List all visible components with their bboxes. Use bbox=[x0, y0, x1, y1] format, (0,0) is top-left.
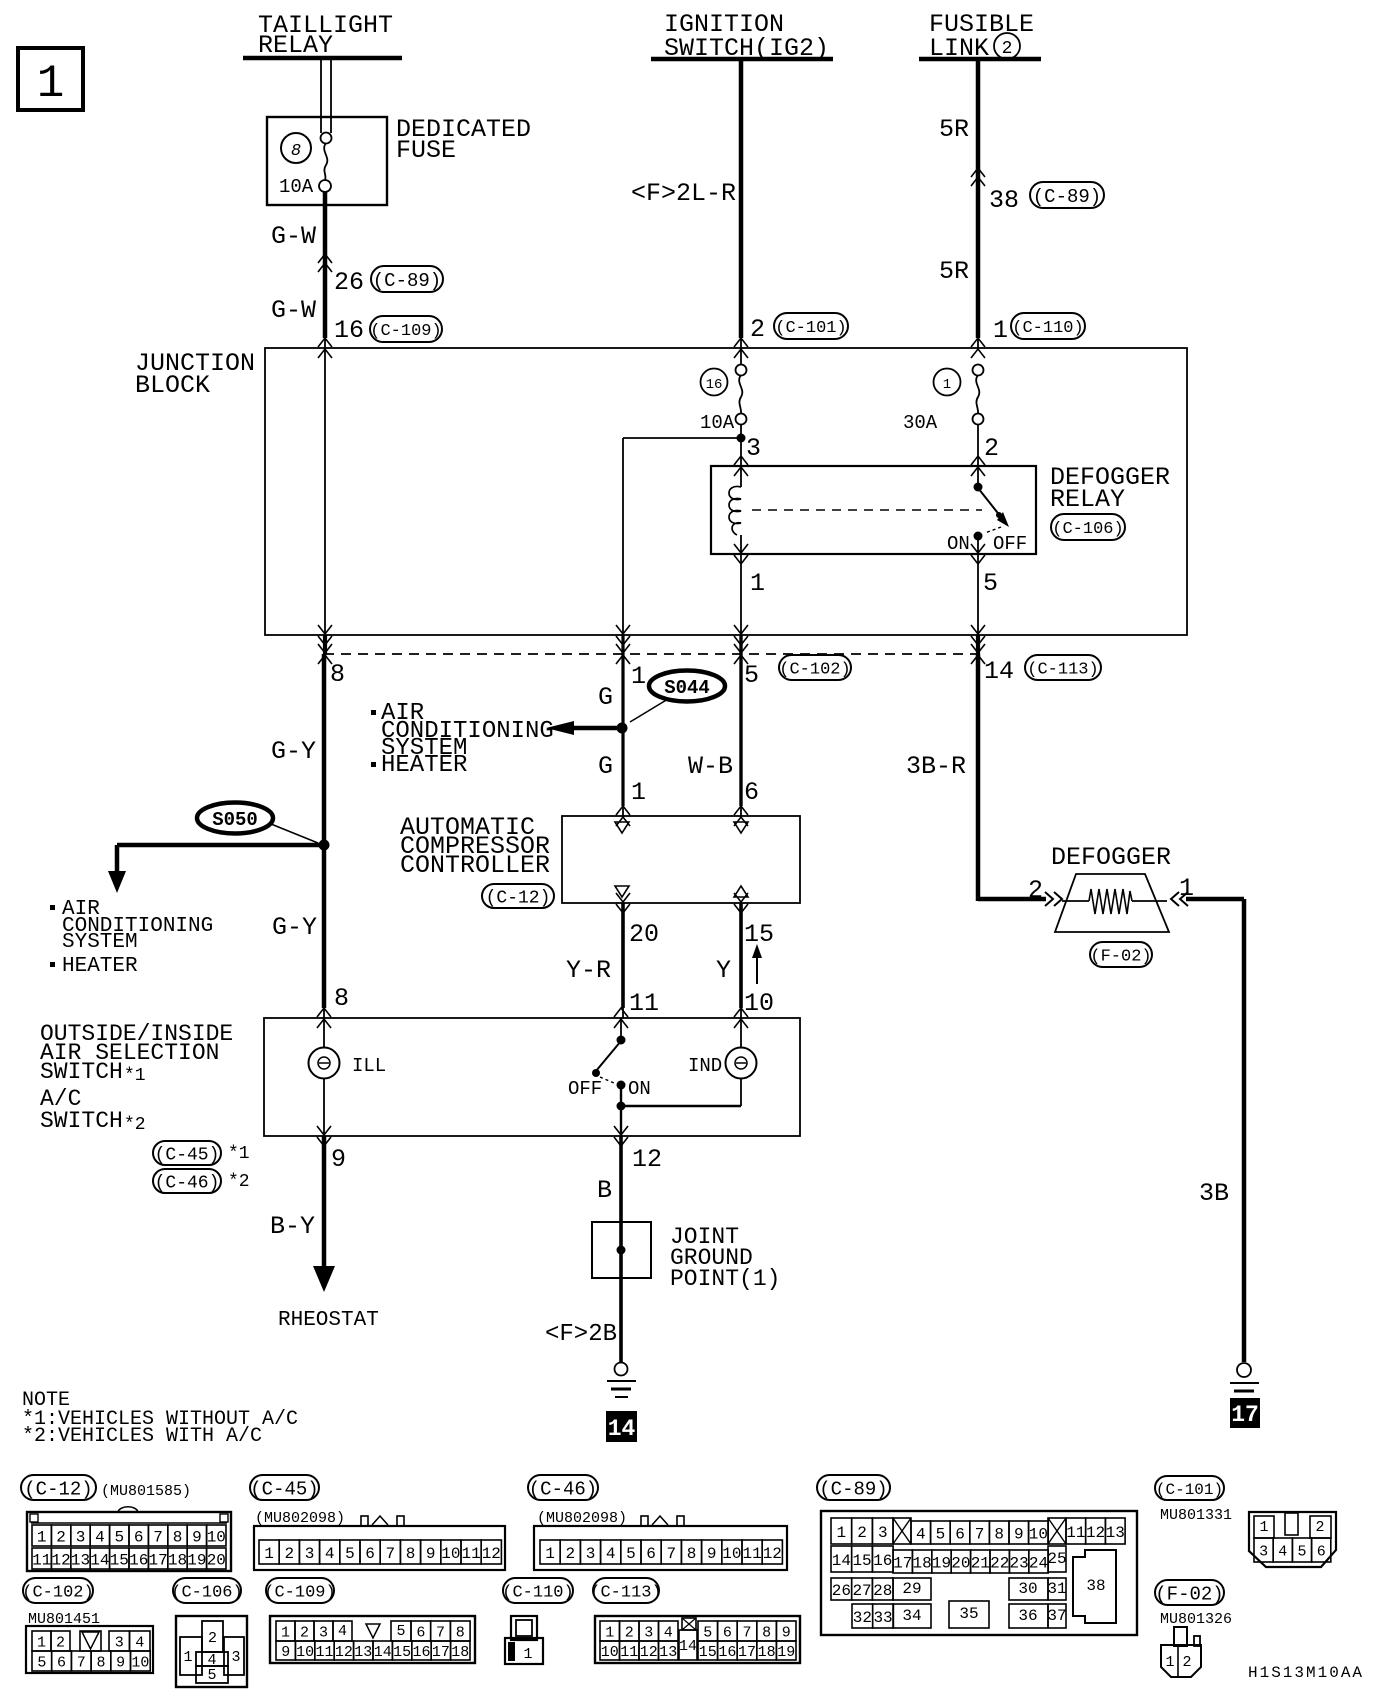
joint ground point box bbox=[592, 1222, 651, 1278]
label 10A junction fuse bbox=[700, 412, 735, 434]
svg-text:30A: 30A bbox=[903, 412, 938, 434]
svg-text:7: 7 bbox=[153, 1528, 163, 1546]
relay switch arm contact bbox=[996, 512, 1009, 527]
defogger heater element bbox=[1062, 889, 1167, 914]
crossing marks switch top bbox=[317, 1008, 748, 1028]
connector C-102 pinout label bbox=[22, 1578, 100, 1628]
fuse element squiggle bbox=[324, 143, 327, 180]
svg-text:18: 18 bbox=[758, 1644, 776, 1661]
crossing marks junction bottom bbox=[318, 625, 985, 645]
svg-text:36: 36 bbox=[1018, 1607, 1037, 1625]
svg-text:*2: *2 bbox=[124, 1115, 146, 1135]
svg-text:11: 11 bbox=[315, 1644, 333, 1661]
svg-text:*1: *1 bbox=[228, 1144, 250, 1164]
relay switch pivot bbox=[974, 483, 983, 492]
relay switch arm bbox=[978, 488, 1001, 517]
connector C-101 pin 1 bbox=[1254, 1516, 1274, 1538]
svg-text:5: 5 bbox=[983, 569, 998, 598]
connector C-89 pins row1 mid bbox=[911, 1521, 1048, 1544]
svg-text:15: 15 bbox=[110, 1551, 129, 1569]
svg-text:13: 13 bbox=[659, 1644, 677, 1661]
label 26 bbox=[334, 268, 364, 297]
svg-text:2: 2 bbox=[300, 1624, 309, 1641]
svg-text:11: 11 bbox=[629, 989, 659, 1018]
svg-text:ON: ON bbox=[628, 1078, 651, 1100]
connector C-101 ref bbox=[774, 313, 848, 339]
label DEFOGGER RELAY bbox=[1050, 463, 1170, 514]
svg-text:ILL: ILL bbox=[352, 1055, 386, 1077]
svg-text:(F-02): (F-02) bbox=[1090, 948, 1151, 967]
svg-text:(MU802098): (MU802098) bbox=[255, 1510, 345, 1527]
label 10A dedicated fuse bbox=[279, 176, 314, 198]
svg-text:4: 4 bbox=[664, 1624, 673, 1641]
svg-text:1: 1 bbox=[545, 1545, 555, 1563]
connector C-113 pin 14 tall bbox=[679, 1630, 697, 1660]
connector C-45 pins bbox=[259, 1540, 501, 1564]
svg-text:8: 8 bbox=[762, 1624, 771, 1641]
connector C-89 pin 38 big bbox=[1073, 1550, 1116, 1623]
node TAILLIGHT RELAY label bbox=[258, 11, 393, 60]
controller pin triangle top-left bbox=[615, 822, 629, 833]
connector C-106 pin 4 bbox=[196, 1652, 228, 1669]
label ILL bbox=[352, 1055, 386, 1077]
svg-text:5: 5 bbox=[396, 1623, 405, 1640]
svg-text:3: 3 bbox=[644, 1624, 653, 1641]
connector C-102 pins row2 bbox=[32, 1651, 150, 1671]
svg-text:G: G bbox=[598, 752, 613, 781]
crossing marks controller top bbox=[616, 806, 748, 826]
fuse 16 element bbox=[739, 375, 742, 414]
connector C-113 keyway M bbox=[682, 1618, 696, 1630]
controller pin triangle top-right bbox=[734, 822, 748, 833]
svg-text:3: 3 bbox=[115, 1634, 124, 1651]
svg-text:35: 35 bbox=[959, 1605, 978, 1623]
svg-text:22: 22 bbox=[990, 1554, 1009, 1572]
label OUTSIDE/INSIDE AIR SELECTION SWITCH bbox=[40, 1021, 233, 1135]
svg-text:29: 29 bbox=[902, 1580, 921, 1598]
svg-text:(C-101): (C-101) bbox=[775, 319, 846, 338]
svg-text:11: 11 bbox=[742, 1545, 761, 1563]
switch dashed detent bbox=[600, 1077, 614, 1083]
label 3 relay coil pin bbox=[746, 434, 761, 463]
svg-text:9: 9 bbox=[782, 1624, 791, 1641]
connector C-46 pins bbox=[540, 1540, 782, 1564]
svg-text:ON: ON bbox=[947, 533, 970, 555]
svg-text:17: 17 bbox=[432, 1644, 450, 1661]
connector F-02 pinout label bbox=[1155, 1580, 1232, 1628]
svg-text:HEATER: HEATER bbox=[381, 752, 467, 779]
svg-text:B: B bbox=[597, 1176, 612, 1205]
svg-text:4: 4 bbox=[1278, 1543, 1287, 1560]
svg-text:7: 7 bbox=[742, 1624, 751, 1641]
connector C-101 pin 2 bbox=[1310, 1516, 1331, 1538]
fuse 1 circle bbox=[934, 369, 961, 396]
label 9 pin bbox=[331, 1145, 346, 1174]
svg-text:OFF: OFF bbox=[993, 533, 1027, 555]
label 2 relay contact pin bbox=[984, 434, 999, 463]
svg-text:4: 4 bbox=[325, 1545, 335, 1563]
connector C-89 keyway X right bbox=[1048, 1518, 1066, 1544]
svg-text:1: 1 bbox=[837, 1524, 847, 1542]
fusible link bus bar bbox=[919, 57, 1041, 62]
connector C-110 pinout label bbox=[502, 1578, 573, 1603]
svg-text:16: 16 bbox=[718, 1644, 736, 1661]
connector C-101 pinout label bbox=[1155, 1476, 1232, 1524]
crossing marks junction top bbox=[318, 338, 985, 358]
taillight relay bus bar bbox=[243, 56, 402, 61]
label Y-R bbox=[566, 956, 611, 985]
connector C-109 pinout body bbox=[270, 1616, 475, 1663]
svg-text:1: 1 bbox=[943, 377, 951, 393]
label JUNCTION BLOCK bbox=[135, 349, 255, 400]
connector C-113 pins row1 left bbox=[600, 1621, 678, 1641]
svg-text:SWITCH: SWITCH bbox=[40, 1108, 123, 1134]
svg-text:32: 32 bbox=[853, 1609, 872, 1627]
label 20 pin bbox=[629, 920, 659, 949]
svg-text:8: 8 bbox=[96, 1654, 105, 1671]
svg-text:1: 1 bbox=[1165, 1654, 1174, 1671]
svg-text:RELAY: RELAY bbox=[1050, 485, 1125, 514]
relay coil bbox=[729, 466, 741, 554]
svg-text:3: 3 bbox=[1259, 1543, 1268, 1560]
connector C-12 pinout body bbox=[27, 1507, 231, 1571]
svg-text:5R: 5R bbox=[939, 115, 969, 144]
svg-text:5: 5 bbox=[703, 1624, 712, 1641]
connector C-106 pin 3 bbox=[224, 1637, 244, 1675]
svg-text:18: 18 bbox=[912, 1554, 931, 1572]
connector C-89 pins row1 right bbox=[1066, 1518, 1125, 1544]
svg-text:(C-106): (C-106) bbox=[1052, 520, 1123, 539]
svg-text:15: 15 bbox=[852, 1552, 871, 1570]
svg-text:(C-109): (C-109) bbox=[370, 322, 441, 341]
svg-text:W-B: W-B bbox=[688, 752, 733, 781]
svg-text:26: 26 bbox=[832, 1582, 851, 1600]
svg-text:(C-101): (C-101) bbox=[1156, 1481, 1223, 1499]
svg-text:3: 3 bbox=[878, 1524, 888, 1542]
wire fusible inside junction to relay bbox=[977, 424, 979, 487]
svg-text:*1: *1 bbox=[124, 1066, 146, 1086]
svg-text:1: 1 bbox=[37, 58, 65, 110]
svg-text:6: 6 bbox=[723, 1624, 732, 1641]
wire switch input bbox=[620, 1018, 622, 1040]
label IND bbox=[688, 1055, 722, 1077]
node IGNITION SWITCH label bbox=[664, 10, 829, 63]
svg-text:8: 8 bbox=[456, 1624, 465, 1641]
svg-text:5: 5 bbox=[345, 1545, 355, 1563]
svg-text:MU801331: MU801331 bbox=[1160, 1507, 1232, 1524]
fuse bottom terminal bbox=[319, 180, 331, 192]
svg-text:1: 1 bbox=[605, 1624, 614, 1641]
svg-text:1: 1 bbox=[631, 778, 646, 807]
svg-text:HEATER: HEATER bbox=[62, 955, 138, 978]
svg-text:(MU802098): (MU802098) bbox=[537, 1510, 627, 1527]
svg-text:1: 1 bbox=[37, 1634, 46, 1651]
svg-text:5: 5 bbox=[114, 1528, 124, 1546]
svg-text:31: 31 bbox=[1047, 1580, 1066, 1598]
svg-text:(C-46): (C-46) bbox=[155, 1173, 220, 1193]
label 1 pin C-110 bbox=[993, 316, 1008, 345]
label 38 bbox=[989, 186, 1019, 215]
wire G upper segment bbox=[621, 654, 624, 728]
controller pin triangle bottom-left bbox=[615, 886, 629, 897]
label 5R lower bbox=[939, 257, 969, 286]
label 11 pin bbox=[629, 989, 659, 1018]
splice S044 oval bbox=[649, 671, 725, 702]
svg-text:4: 4 bbox=[135, 1634, 144, 1651]
svg-text:9: 9 bbox=[707, 1545, 717, 1563]
svg-text:RELAY: RELAY bbox=[258, 31, 333, 60]
connector C-110 ref bbox=[1011, 313, 1085, 339]
svg-text:G-Y: G-Y bbox=[271, 737, 316, 766]
svg-text:9: 9 bbox=[331, 1145, 346, 1174]
connector C-89 pin 37 bbox=[1047, 1604, 1066, 1628]
svg-text:Y: Y bbox=[716, 956, 731, 985]
connector C-106 ref bbox=[1051, 514, 1125, 540]
connector C-89 pins row1 left bbox=[831, 1518, 893, 1544]
svg-text:4: 4 bbox=[338, 1623, 347, 1640]
svg-text:1: 1 bbox=[264, 1545, 274, 1563]
switch ON contact dot bbox=[617, 1081, 626, 1090]
svg-text:(C-106): (C-106) bbox=[171, 1584, 242, 1603]
wire ILL lamp vertical bbox=[323, 1018, 325, 1136]
svg-text:2: 2 bbox=[984, 434, 999, 463]
svg-text:(C-89): (C-89) bbox=[819, 1478, 887, 1500]
fuse 1 element bbox=[976, 375, 979, 414]
svg-text:14: 14 bbox=[984, 657, 1014, 686]
svg-text:(C-45): (C-45) bbox=[155, 1145, 220, 1165]
label Y bbox=[716, 956, 731, 985]
svg-text:2: 2 bbox=[56, 1634, 65, 1651]
svg-text:3: 3 bbox=[319, 1624, 328, 1641]
node switch branch dot bbox=[617, 1102, 626, 1111]
connector C-89 pins row2 mid bbox=[893, 1550, 1048, 1573]
svg-text:17: 17 bbox=[1231, 1402, 1259, 1428]
wire relay coil to junction bottom bbox=[740, 554, 742, 635]
svg-text:19: 19 bbox=[932, 1554, 951, 1572]
connector C-46 pinout label bbox=[528, 1475, 627, 1527]
connector C-113 ref bbox=[1025, 655, 1101, 680]
svg-text:5R: 5R bbox=[939, 257, 969, 286]
label 15 pin bbox=[744, 920, 774, 949]
connector C-89 pins row2 left bbox=[831, 1546, 893, 1572]
label G upper bbox=[598, 683, 613, 712]
connector C-89 pinout label bbox=[817, 1475, 890, 1500]
connector F-02 pinout body bbox=[1161, 1627, 1201, 1677]
label G-Y upper bbox=[271, 737, 316, 766]
connector C-89 pin 30 bbox=[1009, 1578, 1048, 1600]
connector C-110 pinout body bbox=[505, 1616, 543, 1664]
connector F-02 ref diagram bbox=[1090, 942, 1152, 967]
wire B to joint ground bbox=[619, 1136, 623, 1222]
svg-text:(C-12): (C-12) bbox=[24, 1478, 92, 1500]
relay ON contact bbox=[974, 532, 983, 541]
svg-text:2: 2 bbox=[1028, 876, 1043, 905]
svg-text:10: 10 bbox=[207, 1528, 226, 1546]
ground symbol 17 bbox=[1230, 1363, 1259, 1399]
switch box bbox=[264, 1018, 800, 1136]
svg-text:9: 9 bbox=[1014, 1525, 1024, 1543]
label F 2B bbox=[545, 1321, 617, 1348]
switch OFF contact dot bbox=[592, 1069, 600, 1077]
ground ref 14 box bbox=[606, 1411, 637, 1442]
svg-text:3: 3 bbox=[76, 1528, 86, 1546]
svg-text:10: 10 bbox=[1029, 1525, 1048, 1543]
fuse 1 top terminal bbox=[973, 365, 984, 376]
svg-text:(C-12): (C-12) bbox=[486, 888, 551, 908]
wire G-W taillight to junction block bbox=[323, 192, 328, 348]
label B bbox=[597, 1176, 612, 1205]
relay mechanical dashed link bbox=[752, 509, 982, 511]
label DEFOGGER bbox=[1051, 843, 1171, 872]
label DEDICATED FUSE bbox=[396, 115, 531, 165]
svg-text:12: 12 bbox=[763, 1545, 782, 1563]
svg-text:8: 8 bbox=[330, 660, 345, 689]
svg-text:2: 2 bbox=[284, 1545, 294, 1563]
svg-text:3B: 3B bbox=[1199, 1179, 1229, 1208]
pointer S044 to node bbox=[630, 699, 668, 722]
svg-text:IND: IND bbox=[688, 1055, 722, 1077]
svg-text:BLOCK: BLOCK bbox=[135, 371, 210, 400]
connector C-45 pinout label bbox=[250, 1475, 345, 1527]
crossing marks relay bottom bbox=[734, 544, 985, 564]
svg-text:8: 8 bbox=[406, 1545, 416, 1563]
label 14 pin C-113 bbox=[984, 657, 1014, 686]
svg-text:16: 16 bbox=[412, 1644, 430, 1661]
connector C-12 pinout label bbox=[21, 1475, 191, 1500]
svg-text:6: 6 bbox=[57, 1654, 66, 1671]
label AUTOMATIC COMPRESSOR CONTROLLER bbox=[400, 813, 550, 880]
svg-text:4: 4 bbox=[916, 1525, 926, 1543]
wire ignition IG2 to junction block bbox=[739, 61, 744, 348]
label F 2L-R bbox=[631, 179, 736, 208]
svg-text:13: 13 bbox=[71, 1551, 90, 1569]
svg-text:15: 15 bbox=[393, 1644, 411, 1661]
crossing marks relay top bbox=[734, 456, 985, 476]
label air conditioning system heater mid bbox=[371, 700, 554, 779]
label 1 defogger pin bbox=[1179, 874, 1194, 903]
defogger relay box bbox=[711, 466, 1036, 554]
svg-text:(F-02): (F-02) bbox=[1155, 1583, 1223, 1605]
connector C-106 pinout label bbox=[171, 1578, 242, 1603]
svg-text:7: 7 bbox=[975, 1525, 985, 1543]
svg-text:30: 30 bbox=[1018, 1580, 1037, 1598]
connector C-46 ref bbox=[153, 1169, 250, 1193]
svg-text:7: 7 bbox=[77, 1654, 86, 1671]
svg-text:DEFOGGER: DEFOGGER bbox=[1051, 843, 1171, 872]
label ON switch bbox=[628, 1078, 651, 1100]
connector C-101 pins row2 bbox=[1254, 1538, 1331, 1562]
svg-text:1: 1 bbox=[523, 1646, 532, 1663]
label 3B-R bbox=[906, 752, 966, 781]
fuse 16 bottom terminal bbox=[736, 414, 747, 425]
svg-text:8: 8 bbox=[334, 984, 349, 1013]
connector C-89 pinout body bbox=[821, 1511, 1137, 1635]
crossing marks switch bottom bbox=[317, 1126, 628, 1146]
label 10 pin bbox=[744, 989, 774, 1018]
svg-text:14: 14 bbox=[90, 1551, 109, 1569]
connector C-102 pinout body bbox=[26, 1626, 153, 1673]
svg-text:6: 6 bbox=[1317, 1543, 1326, 1560]
svg-text:18: 18 bbox=[168, 1551, 187, 1569]
svg-text:18: 18 bbox=[451, 1644, 469, 1661]
stub wires between box and dashed line bbox=[325, 635, 978, 654]
node S044 junction dot bbox=[617, 723, 628, 734]
svg-text:2: 2 bbox=[565, 1545, 575, 1563]
label air conditioning system heater left bbox=[50, 898, 213, 978]
label 6 pin C-12 bbox=[744, 778, 759, 807]
connector C-89 pin 31 bbox=[1047, 1578, 1066, 1600]
label W-B bbox=[688, 752, 733, 781]
svg-text:RHEOSTAT: RHEOSTAT bbox=[278, 1309, 379, 1332]
label 8 pin switch bbox=[334, 984, 349, 1013]
svg-text:8: 8 bbox=[687, 1545, 697, 1563]
svg-text:10: 10 bbox=[601, 1644, 619, 1661]
label 5R upper bbox=[939, 115, 969, 144]
svg-text:6: 6 bbox=[744, 778, 759, 807]
wire Y bbox=[739, 903, 743, 1018]
wire branch pin3 to compressor controller bbox=[623, 438, 741, 635]
svg-text:11: 11 bbox=[620, 1644, 638, 1661]
connector C-106 pinout body bbox=[176, 1616, 247, 1687]
crossing marks dashed line bbox=[318, 644, 985, 664]
connector C-45 ref bbox=[153, 1141, 250, 1165]
svg-text:6: 6 bbox=[134, 1528, 144, 1546]
connector C-109 pinout label bbox=[264, 1578, 335, 1603]
label 3B bbox=[1199, 1179, 1229, 1208]
svg-text:OFF: OFF bbox=[568, 1078, 602, 1100]
svg-text:38: 38 bbox=[989, 186, 1019, 215]
connector C-113 pins row2 right bbox=[698, 1641, 796, 1661]
svg-text:10A: 10A bbox=[279, 176, 314, 198]
svg-text:3: 3 bbox=[586, 1545, 596, 1563]
ignition switch bus bar bbox=[651, 57, 833, 62]
svg-text:Y-R: Y-R bbox=[566, 956, 611, 985]
svg-text:5: 5 bbox=[626, 1545, 636, 1563]
svg-text:14: 14 bbox=[608, 1416, 636, 1442]
wire S050 branch left arrow bbox=[108, 845, 324, 893]
wire S044 branch left arrow bbox=[546, 721, 622, 735]
svg-text:34: 34 bbox=[902, 1607, 921, 1625]
connector C-12 pins row2 bbox=[32, 1548, 226, 1569]
svg-text:12: 12 bbox=[335, 1644, 353, 1661]
svg-text:10A: 10A bbox=[700, 412, 735, 434]
svg-text:17: 17 bbox=[893, 1554, 912, 1572]
svg-text:16: 16 bbox=[129, 1551, 148, 1569]
current direction up arrow bbox=[752, 944, 762, 984]
pointer S050 to node bbox=[271, 824, 318, 843]
svg-text:G: G bbox=[598, 683, 613, 712]
connector C-106 pin 1 bbox=[180, 1637, 202, 1675]
wire F 2B ground segment bbox=[619, 1278, 623, 1362]
svg-text:(C-113): (C-113) bbox=[1027, 661, 1098, 680]
svg-text:POINT(1): POINT(1) bbox=[670, 1266, 780, 1292]
svg-text:(C-102): (C-102) bbox=[779, 661, 850, 680]
svg-text:12: 12 bbox=[1086, 1524, 1105, 1542]
label RHEOSTAT bbox=[278, 1309, 379, 1332]
connector C-106 pin 5 bbox=[196, 1666, 228, 1684]
wire G lower segment bbox=[621, 728, 624, 816]
svg-text:G-Y: G-Y bbox=[272, 913, 317, 942]
svg-text:S050: S050 bbox=[212, 809, 258, 831]
svg-text:11: 11 bbox=[32, 1551, 51, 1569]
wire B-Y to rheostat bbox=[313, 1136, 335, 1292]
svg-text:1: 1 bbox=[1259, 1519, 1268, 1536]
svg-text:5: 5 bbox=[207, 1667, 216, 1684]
inline connector marks on 5R wire bbox=[971, 168, 985, 186]
junction block connector dashed line bbox=[324, 653, 979, 655]
svg-text:17: 17 bbox=[738, 1644, 756, 1661]
svg-text:*2: *2 bbox=[228, 1172, 250, 1192]
